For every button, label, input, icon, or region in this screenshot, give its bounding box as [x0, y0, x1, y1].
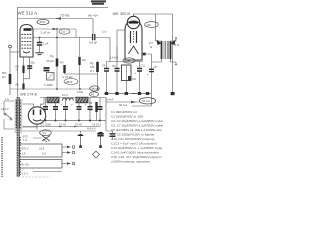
capacitor 1uF to ground: [39, 38, 41, 43]
wire L2 plate branch: [33, 29, 76, 38]
wire below Rp: [56, 67, 58, 90]
corner to cap: [106, 131, 113, 133]
oval label 410V: [145, 22, 159, 28]
svg-text:of 600V polyprop. capacitors: of 600V polyprop. capacitors: [111, 160, 151, 164]
oval label 14: [90, 86, 100, 91]
svg-text:+: +: [61, 103, 63, 107]
choke 2 coil: [63, 98, 74, 100]
oval label 110V: [59, 29, 70, 34]
svg-text:Wo 414: Wo 414: [88, 14, 98, 18]
tube V1 grids: [22, 35, 32, 49]
svg-text:+0,5: +0,5: [39, 147, 45, 151]
tube V2 WE300B top cap: [127, 16, 139, 28]
coupling cap bars: [44, 68, 50, 71]
wire 300B plate to OPT: [133, 14, 135, 16]
B+ line right: [106, 101, 139, 103]
tube V1 leads: [24, 57, 30, 89]
wire grid rail: [65, 73, 98, 75]
tube V1 cathode: [23, 52, 30, 53]
svg-text:1 A: 1 A: [5, 97, 9, 101]
svg-text:1W: 1W: [89, 109, 93, 112]
oval label 3512: [37, 19, 49, 24]
svg-text:+: +: [147, 72, 149, 76]
bias bottom rail: [104, 93, 152, 95]
svg-text:110: 110: [61, 30, 66, 34]
svg-text:N.B 4 V: N.B 4 V: [87, 127, 96, 131]
svg-text:5,4+A: 5,4+A: [106, 98, 114, 102]
left margin vertical text: [1, 137, 3, 177]
svg-text:1M: 1M: [82, 58, 86, 62]
rectifier leads: [22, 104, 37, 127]
parts list: [111, 110, 163, 164]
pot bottom lead: [125, 81, 127, 94]
hum pot: [122, 65, 132, 81]
capacitor fil right C11: [139, 62, 141, 94]
svg-text:Rg: Rg: [50, 54, 54, 58]
svg-text:R4: R4: [60, 61, 64, 65]
capacitor C12: [110, 134, 116, 137]
svg-text:100: 100: [132, 78, 137, 81]
right filter vertical: [105, 98, 107, 132]
svg-text:92 ma: 92 ma: [142, 99, 150, 103]
oval label 74: [123, 58, 135, 63]
svg-text:Rg: Rg: [90, 61, 94, 65]
oval label 4V: [90, 92, 99, 97]
svg-text:200: 200: [90, 65, 95, 69]
primary leads: [4, 101, 14, 129]
svg-text:110 V: 110 V: [1, 107, 9, 111]
resistor R4 mid: [63, 65, 65, 73]
lamp 2: [97, 132, 104, 134]
svg-text:B+ 30: B+ 30: [22, 163, 30, 167]
PT secondary windings lower: [20, 137, 21, 145]
svg-text:0,9 μF: 0,9 μF: [89, 40, 97, 44]
svg-text:+: +: [135, 71, 137, 75]
capacitor fil mid C10: [116, 62, 118, 94]
choke 1 box: [47, 97, 59, 103]
node dots: [56, 28, 58, 30]
capacitor fil left C9: [106, 62, 108, 94]
wire OPT primary bottom: [152, 59, 162, 62]
svg-text:4V: 4V: [91, 94, 94, 97]
resistor grid leak: [96, 62, 99, 72]
svg-text:C2 1000μF/50V el. 25V: C2 1000μF/50V el. 25V: [111, 115, 144, 119]
power transformer core: [15, 99, 23, 133]
PT primary winding: [16, 100, 17, 128]
svg-text:6,3 V: 6,3 V: [22, 172, 28, 176]
corner wires bottom right: [132, 97, 152, 106]
wire OPT secondary right: [171, 38, 177, 42]
svg-text:T-4026: T-4026: [44, 83, 53, 87]
300B leads down: [129, 60, 139, 62]
svg-text:+: +: [85, 103, 87, 107]
wire plate resistor drop: [56, 29, 58, 59]
oval label 92ma: [139, 98, 155, 104]
OPT arrows: [157, 40, 162, 46]
squiggle under 5V oval: [43, 139, 47, 142]
choke 3 box: [76, 97, 88, 103]
wire B+ top rail: [17, 7, 108, 9]
svg-text:C5, C7 16μF/500V+1,2μF/550V: C5, C7 16μF/500V+1,2μF/550V mylar: [111, 124, 163, 128]
svg-text:2 μF ch: 2 μF ch: [41, 31, 51, 35]
svg-text:WE 312 A: WE 312 A: [18, 11, 38, 16]
filament rail: [107, 61, 144, 63]
svg-text:1,4V: 1,4V: [125, 59, 131, 63]
rectifier tube V3: [28, 107, 45, 124]
svg-text:2 A: 2 A: [42, 152, 46, 156]
svg-text:C1 390nF/630V oil: C1 390nF/630V oil: [111, 110, 137, 114]
svg-text:C15, C16, C17 16μF/500V polys: C15, C16, C17 16μF/500V polystyrol: [111, 155, 162, 159]
svg-text:Ω: Ω: [150, 45, 152, 49]
grid resistor line R6: [79, 38, 81, 58]
svg-text:1,4+0,6: 1,4+0,6: [110, 57, 119, 60]
wire input line: [9, 48, 11, 95]
capacitor 0,9uF: [93, 34, 95, 40]
long filament line: [22, 126, 100, 128]
svg-text:C4 16,3: C4 16,3: [92, 123, 102, 127]
bypass cap: [27, 66, 32, 68]
svg-text:C14 0,3mF/1000V mica transmit: C14 0,3mF/1000V mica transmitter: [111, 151, 159, 155]
svg-text:C1 2000: C1 2000: [41, 123, 51, 127]
wire input to grid: [10, 51, 21, 53]
tube V2 filament: [129, 46, 139, 54]
resistor Rp: [56, 59, 59, 67]
svg-text:+: +: [41, 103, 43, 107]
svg-text:400: 400: [147, 23, 152, 27]
terminal row 2 box: [20, 144, 63, 157]
resistor input: [9, 74, 12, 84]
wire L1 73ma feed: [18, 18, 94, 20]
svg-text:1 A: 1 A: [23, 138, 27, 142]
svg-text:WE 274 B: WE 274 B: [20, 93, 38, 97]
svg-text:Ω 1: Ω 1: [90, 69, 95, 73]
svg-text:C3 40: C3 40: [75, 123, 82, 127]
oval label AB23: [64, 79, 78, 85]
join: [24, 78, 30, 80]
svg-text:C6 4μF/550V oil, WE 1,2 kΩ/2W: C6 4μF/550V oil, WE 1,2 kΩ/2W wire: [111, 128, 162, 132]
wire left vertical bus: [17, 8, 19, 98]
svg-text:4,03k: 4,03k: [77, 91, 84, 94]
svg-text:AB23: AB23: [66, 80, 73, 84]
svg-text:8 Ω: 8 Ω: [175, 43, 179, 47]
ground rail psu: [40, 120, 106, 122]
tube V2 envelope: [125, 21, 142, 60]
tube V2 plate bars: [131, 31, 137, 43]
svg-text:73 ma: 73 ma: [60, 14, 69, 18]
wire L3 coupling line: [33, 37, 110, 39]
resistor bleeder: [95, 102, 97, 112]
svg-text:675 V: 675 V: [22, 147, 29, 151]
svg-text:675: 675: [23, 135, 28, 139]
svg-text:3512: 3512: [40, 20, 46, 24]
PT secondary winding HV: [20, 100, 21, 128]
svg-text:WE 300 B: WE 300 B: [113, 11, 131, 16]
svg-text:5 V: 5 V: [43, 131, 47, 135]
lamp 1: [77, 134, 84, 136]
svg-text:1 A: 1 A: [22, 152, 26, 156]
svg-text:92 ma: 92 ma: [119, 103, 127, 107]
svg-text:C12 2 × 8 μF oval 2 μF polyst: C12 2 × 8 μF oval 2 μF polystyrol: [111, 142, 157, 146]
tube V1 WE310A envelope: [20, 25, 33, 58]
svg-text:12 n: 12 n: [102, 31, 107, 34]
oval label 5V: [40, 130, 52, 136]
svg-text:1 μF: 1 μF: [43, 42, 49, 46]
tube V1 anode bar: [24, 28, 32, 31]
svg-text:C8, C9 1000μF/100V el. bipola: C8, C9 1000μF/100V el. bipolar: [111, 133, 154, 137]
capacitor on fb line: [149, 69, 154, 71]
title smudge top: [91, 1, 106, 3]
filter rail top: [40, 97, 106, 99]
svg-text:50μ: 50μ: [31, 62, 36, 65]
ground rail: [10, 88, 99, 90]
vertical to rail: [116, 47, 118, 62]
svg-text:C13 10μF/450V el. + 1μF/550V: C13 10μF/450V el. + 1μF/550V mylar: [111, 146, 162, 150]
svg-text:50 kΩ: 50 kΩ: [47, 59, 54, 63]
svg-text:C3, C4 16μF/500V+1,2μF/550V m: C3, C4 16μF/500V+1,2μF/550V mylar: [111, 119, 163, 123]
svg-text:C11: C11: [141, 65, 146, 68]
wire grid leak v: [97, 61, 99, 62]
coupling box: [47, 73, 55, 81]
diamond mark: [93, 151, 100, 158]
svg-text:kΩ: kΩ: [2, 75, 6, 79]
feedback tap: [144, 54, 152, 97]
OPT windings: [162, 41, 171, 59]
resistor R5: [22, 84, 24, 90]
terminal row 3 box: [20, 160, 63, 169]
svg-text:T10: T10: [112, 65, 117, 68]
wire to 300B grid: [109, 38, 111, 62]
switch: [5, 114, 11, 118]
resistor cathode R3: [22, 66, 24, 74]
svg-text:+: +: [71, 103, 73, 107]
filter caps row: [46, 98, 101, 121]
svg-text:10 H: 10 H: [62, 93, 68, 97]
svg-text:C8: C8: [154, 65, 158, 69]
svg-text:C10, C11 100nF/630V polyprop.: C10, C11 100nF/630V polyprop.: [111, 137, 155, 141]
